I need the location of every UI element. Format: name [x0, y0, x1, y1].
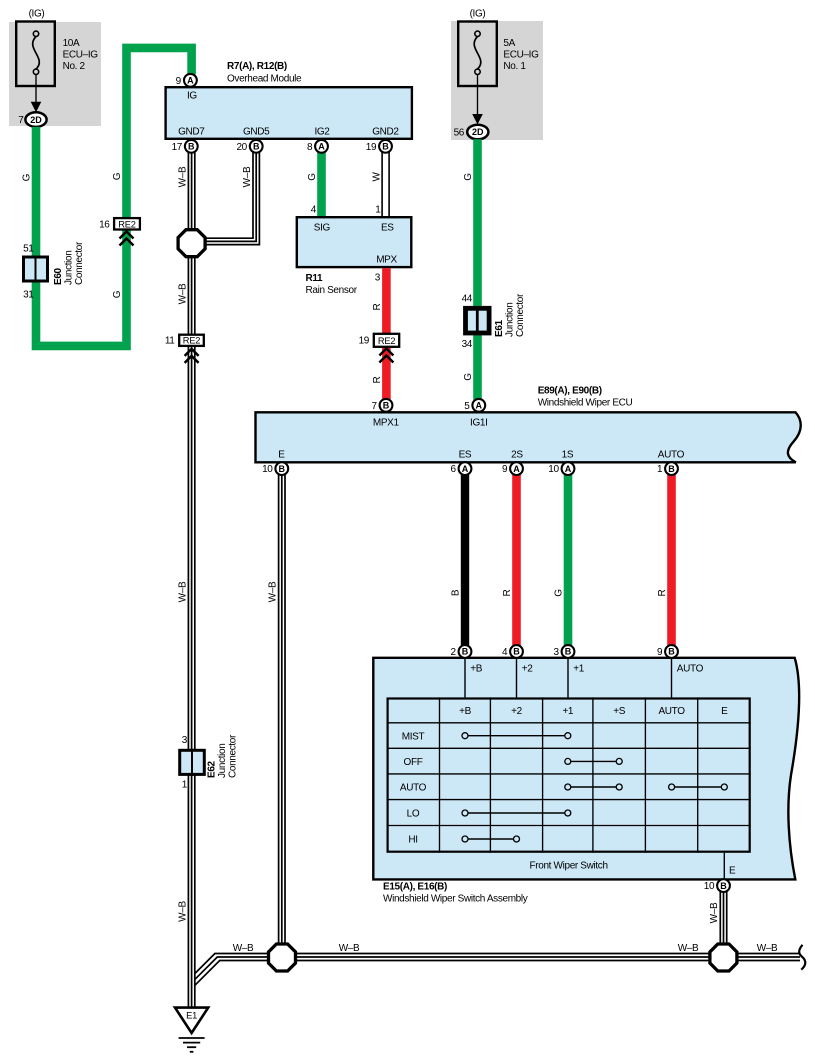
wire label W-B — [177, 166, 188, 187]
pin 3 (rain sensor MPX) — [375, 273, 381, 284]
svg-text:17: 17 — [172, 142, 183, 153]
contact row AUTO right — [669, 784, 728, 790]
ECU E89(A), E90(B) Windshield Wiper ECU — [256, 386, 801, 463]
svg-text:SIG: SIG — [314, 223, 331, 234]
junction connector E60 pins 51/31 — [23, 241, 85, 301]
connector 2D pin 56 (right) — [454, 125, 489, 140]
contact row AUTO left — [565, 784, 622, 790]
wire B: ECU ES pin 6A down to switch +B pin 2B — [461, 475, 469, 646]
wire W-B: horizontal ground bus between junction nodes — [296, 954, 710, 961]
svg-text:Connector: Connector — [74, 241, 85, 285]
svg-text:R: R — [372, 303, 383, 310]
svg-text:W–B: W–B — [233, 943, 254, 954]
connector RE2 pin 16 — [99, 218, 140, 245]
svg-text:W–B: W–B — [678, 943, 699, 954]
svg-text:31: 31 — [23, 290, 34, 301]
svg-text:3: 3 — [375, 273, 381, 284]
label Front Wiper Switch — [530, 861, 608, 872]
wire W-B: horizontal ground bus right segment to continuation — [737, 954, 800, 961]
svg-text:W–B: W–B — [177, 581, 188, 602]
wire G: 2D(56) down through E61 to Wiper ECU pin 5A — [473, 139, 482, 400]
svg-text:16: 16 — [99, 219, 110, 230]
contact row LO — [462, 810, 571, 816]
arrow from fuse to connector 2D right — [472, 75, 483, 125]
pin 5 A (ECU IG1I) — [464, 399, 485, 412]
wire W: GND2 pin 19B down to rain sensor ES — [382, 153, 389, 217]
svg-text:(IG): (IG) — [29, 9, 45, 20]
svg-text:W–B: W–B — [242, 166, 253, 187]
svg-text:R11: R11 — [306, 273, 324, 284]
svg-text:W–B: W–B — [267, 581, 278, 602]
svg-text:LO: LO — [407, 809, 420, 820]
svg-text:2D: 2D — [30, 115, 42, 125]
contact row OFF — [565, 758, 622, 764]
svg-text:W–B: W–B — [757, 943, 778, 954]
wire label G — [112, 290, 123, 298]
svg-text:AUTO: AUTO — [677, 664, 704, 675]
svg-text:10: 10 — [704, 881, 715, 892]
pin 10 B (ECU E) — [262, 462, 288, 475]
switch assembly E15(A), E16(B) Windshield Wiper Switch Assembly — [373, 658, 799, 905]
svg-text:9: 9 — [502, 464, 508, 475]
internal wire AUTO — [672, 658, 704, 698]
svg-text:ES: ES — [459, 450, 472, 461]
pin 9 A (ECU 2S) — [502, 462, 523, 475]
svg-text:W–B: W–B — [177, 166, 188, 187]
svg-text:AUTO: AUTO — [400, 783, 427, 794]
wire label W-B — [267, 581, 278, 602]
svg-text:Front Wiper Switch: Front Wiper Switch — [530, 861, 608, 872]
wire label G — [307, 173, 318, 181]
svg-text:No. 2: No. 2 — [63, 61, 86, 72]
svg-text:B: B — [462, 647, 469, 657]
svg-text:6: 6 — [450, 464, 456, 475]
svg-text:A: A — [476, 401, 483, 411]
svg-text:A: A — [187, 76, 194, 86]
svg-text:2: 2 — [450, 647, 456, 658]
svg-text:2D: 2D — [472, 127, 484, 137]
svg-text:E: E — [278, 450, 285, 461]
svg-text:5A: 5A — [503, 38, 515, 49]
svg-text:W: W — [371, 172, 382, 182]
svg-text:A: A — [565, 464, 572, 474]
svg-text:9: 9 — [176, 76, 182, 87]
svg-text:7: 7 — [371, 401, 377, 412]
svg-text:R: R — [657, 589, 668, 596]
svg-text:MPX1: MPX1 — [373, 418, 400, 429]
svg-text:G: G — [463, 373, 474, 381]
pin 9 A (Overhead Module IG) — [176, 74, 197, 87]
svg-text:MPX: MPX — [376, 255, 397, 266]
wire label W-B — [177, 901, 188, 922]
wire label R — [372, 376, 383, 383]
wire G: 2D(7) down through E60, U-turn up to RE2(16) — [36, 127, 127, 346]
svg-text:19: 19 — [359, 336, 370, 347]
internal wire E to pin 10B — [724, 853, 736, 880]
wire label W-B — [177, 283, 188, 304]
junction node bottom right octagon — [710, 944, 737, 971]
pin 1 B (ECU AUTO) — [657, 462, 678, 475]
svg-text:GND2: GND2 — [372, 127, 399, 138]
svg-text:E61: E61 — [494, 319, 505, 337]
svg-text:IG2: IG2 — [314, 127, 330, 138]
svg-text:Connector: Connector — [515, 293, 526, 337]
wire label W-B — [242, 166, 253, 187]
wire W-B: switch E pin 10B down to right junction node — [720, 892, 726, 944]
svg-text:W–B: W–B — [709, 902, 720, 923]
continuation break mark — [799, 945, 805, 970]
svg-text:No. 1: No. 1 — [503, 61, 526, 72]
svg-text:A: A — [513, 464, 520, 474]
pin 10 B (switch E) — [704, 879, 730, 892]
svg-text:3: 3 — [553, 647, 559, 658]
internal wire +B — [465, 658, 483, 698]
svg-text:R: R — [502, 589, 513, 596]
svg-text:E1: E1 — [186, 1011, 197, 1021]
svg-text:19: 19 — [366, 142, 377, 153]
wire label G — [22, 173, 33, 181]
svg-text:44: 44 — [462, 294, 473, 305]
svg-text:B: B — [253, 142, 260, 152]
svg-text:B: B — [382, 142, 389, 152]
svg-text:+B: +B — [470, 664, 482, 675]
connector RE2 pin 11 — [165, 335, 204, 363]
svg-text:Overhead Module: Overhead Module — [227, 74, 302, 85]
svg-text:GND5: GND5 — [243, 127, 270, 138]
svg-text:3: 3 — [182, 735, 188, 746]
svg-text:Junction: Junction — [64, 251, 75, 285]
svg-text:8: 8 — [307, 142, 313, 153]
pin 2 B (switch +B) — [450, 645, 471, 658]
pin 1 (rain sensor ES) — [375, 205, 381, 216]
svg-text:B: B — [565, 647, 572, 657]
svg-text:5: 5 — [464, 401, 470, 412]
wire label G — [112, 172, 123, 180]
svg-text:B: B — [383, 401, 390, 411]
svg-text:IG1I: IG1I — [470, 418, 488, 429]
svg-text:+S: +S — [613, 706, 625, 717]
svg-text:RE2: RE2 — [118, 220, 136, 230]
rain sensor R11 — [297, 217, 412, 296]
fuse block 5A ECU-IG No.1 gray area — [451, 21, 543, 140]
wire label W-B — [709, 902, 720, 923]
wire G: IG2 pin 8A down to rain sensor SIG — [317, 153, 326, 217]
pin 7 B (ECU MPX1) — [371, 399, 392, 412]
svg-text:34: 34 — [462, 339, 473, 350]
svg-text:W–B: W–B — [177, 901, 188, 922]
svg-text:4: 4 — [502, 647, 508, 658]
svg-text:OFF: OFF — [404, 757, 423, 768]
svg-text:51: 51 — [23, 244, 34, 255]
wire label B — [451, 589, 462, 596]
svg-text:10: 10 — [262, 464, 273, 475]
junction node bottom left octagon — [269, 944, 296, 971]
svg-text:G: G — [554, 589, 565, 597]
connector 2D pin 7 (left) — [18, 112, 46, 127]
svg-text:HI: HI — [408, 835, 417, 846]
svg-text:Rain Sensor: Rain Sensor — [306, 285, 358, 296]
svg-text:+B: +B — [459, 706, 471, 717]
svg-text:Junction: Junction — [217, 744, 228, 778]
pin 10 A (ECU 1S) — [548, 462, 574, 475]
svg-text:MIST: MIST — [402, 731, 425, 742]
fuse F2 5A ECU-IG No.1 — [458, 22, 539, 87]
svg-text:G: G — [22, 173, 33, 181]
pin 8 A (IG2) — [307, 140, 328, 153]
fuse block 10A ECU-IG No.2 gray area — [9, 22, 101, 126]
internal wire +1 — [568, 658, 585, 698]
svg-text:A: A — [318, 142, 325, 152]
wire R: ECU AUTO pin 1B down to switch AUTO pin 9B — [667, 475, 676, 646]
svg-text:E60: E60 — [53, 267, 64, 285]
svg-text:RE2: RE2 — [378, 336, 396, 346]
svg-text:B: B — [188, 142, 195, 152]
svg-text:1: 1 — [657, 464, 663, 475]
pin 19 B (GND2) — [366, 140, 392, 153]
wire G: ECU 1S pin 10A down to switch +1 pin 3B — [564, 475, 573, 646]
wire label W-B — [678, 943, 699, 954]
svg-text:Connector: Connector — [228, 734, 239, 778]
svg-text:1: 1 — [375, 205, 381, 216]
svg-text:2S: 2S — [511, 450, 523, 461]
svg-text:W–B: W–B — [177, 283, 188, 304]
wire label R — [502, 589, 513, 596]
svg-text:E: E — [729, 866, 736, 877]
svg-text:B: B — [668, 647, 675, 657]
svg-text:G: G — [112, 290, 123, 298]
fuse F1 10A ECU-IG No.2 — [16, 22, 98, 87]
svg-text:AUTO: AUTO — [658, 706, 685, 717]
svg-text:+2: +2 — [522, 664, 533, 675]
svg-text:B: B — [720, 881, 727, 891]
svg-text:R: R — [372, 376, 383, 383]
pin 3 B (switch +1) — [553, 645, 574, 658]
wire W-B: horizontal ground bus left segment with 45-degree bend to E1 wire — [195, 954, 269, 986]
label (IG) left — [29, 9, 45, 20]
wire label G — [463, 173, 474, 181]
pin 17 B (GND7) — [172, 140, 198, 153]
pin 20 B (GND5) — [236, 140, 262, 153]
svg-text:4: 4 — [311, 205, 317, 216]
svg-text:ECU–IG: ECU–IG — [63, 50, 99, 61]
pin 4 (rain sensor SIG) — [311, 205, 317, 216]
internal wire +2 — [517, 658, 534, 698]
arrow from fuse to connector 2D left — [31, 75, 42, 113]
svg-text:B: B — [279, 464, 286, 474]
svg-text:11: 11 — [165, 336, 175, 347]
wire label R — [657, 589, 668, 596]
svg-text:E62: E62 — [207, 760, 218, 778]
svg-text:G: G — [463, 173, 474, 181]
wire label W-B — [177, 581, 188, 602]
svg-text:+2: +2 — [511, 706, 522, 717]
pin 6 A (ECU ES) — [450, 462, 471, 475]
svg-text:RE2: RE2 — [183, 336, 201, 346]
svg-text:1S: 1S — [562, 450, 574, 461]
svg-text:B: B — [513, 647, 520, 657]
wire R: ECU 2S pin 9A down to switch +2 pin 4B — [512, 475, 521, 646]
svg-text:E15(A), E16(B): E15(A), E16(B) — [383, 882, 447, 893]
wire label G — [554, 589, 565, 597]
svg-text:+1: +1 — [562, 706, 573, 717]
wire G: RE2(16) up and over to Overhead Module pin 9A — [127, 48, 192, 217]
svg-text:56: 56 — [454, 128, 465, 139]
junction connector E62 pins 3/1 — [180, 734, 239, 791]
wire W-B: ECU E pin 10B down to bottom junction node — [279, 475, 285, 944]
svg-text:10A: 10A — [63, 38, 80, 49]
svg-text:R7(A), R12(B): R7(A), R12(B) — [227, 61, 287, 72]
svg-text:Windshield Wiper ECU: Windshield Wiper ECU — [538, 398, 633, 409]
wire R: rain sensor MPX pin 3 down through RE2(19) to ECU MPX1 — [382, 268, 391, 400]
svg-text:B: B — [668, 464, 675, 474]
svg-text:Junction: Junction — [505, 303, 516, 337]
svg-text:Windshield Wiper Switch Assemb: Windshield Wiper Switch Assembly — [383, 894, 528, 905]
contact row MIST — [462, 733, 571, 739]
svg-text:+1: +1 — [573, 664, 584, 675]
svg-text:9: 9 — [657, 647, 663, 658]
svg-text:W–B: W–B — [339, 943, 360, 954]
wire label W-B — [233, 943, 254, 954]
wire W-B: GND5 pin 20B down and left into junction node — [206, 153, 260, 245]
svg-text:IG: IG — [187, 91, 197, 102]
pin 9 B (switch AUTO) — [657, 645, 678, 658]
ground E1 — [175, 1008, 208, 1052]
svg-text:G: G — [112, 172, 123, 180]
wire label R — [372, 303, 383, 310]
wire W-B: GND7 pin 17B down to ground E1 — [188, 153, 194, 1008]
op module R7(A), R12(B) Overhead Module — [166, 61, 412, 139]
svg-text:GND7: GND7 — [178, 127, 205, 138]
svg-text:E89(A), E90(B): E89(A), E90(B) — [538, 386, 602, 397]
wire label G — [463, 373, 474, 381]
connector RE2 pin 19 — [359, 334, 400, 363]
pin 4 B (switch +2) — [502, 645, 523, 658]
wire label W-B — [757, 943, 778, 954]
svg-text:B: B — [451, 589, 462, 596]
svg-text:ES: ES — [381, 223, 394, 234]
svg-text:7: 7 — [18, 115, 24, 126]
svg-text:ECU–IG: ECU–IG — [503, 50, 539, 61]
svg-text:1: 1 — [182, 780, 188, 791]
svg-text:A: A — [462, 464, 469, 474]
label (IG) right — [470, 9, 486, 20]
front wiper switch contact table — [387, 697, 751, 852]
svg-text:20: 20 — [236, 142, 247, 153]
svg-text:AUTO: AUTO — [658, 450, 685, 461]
junction node (GND7/GND5) octagon — [178, 230, 205, 257]
contact row HI — [462, 836, 520, 842]
svg-text:10: 10 — [548, 464, 559, 475]
wire label W-B — [339, 943, 360, 954]
svg-text:G: G — [307, 173, 318, 181]
junction connector E61 pins 44/34 — [462, 293, 526, 350]
wire label W — [371, 172, 382, 182]
svg-text:(IG): (IG) — [470, 9, 486, 20]
svg-text:E: E — [721, 706, 728, 717]
